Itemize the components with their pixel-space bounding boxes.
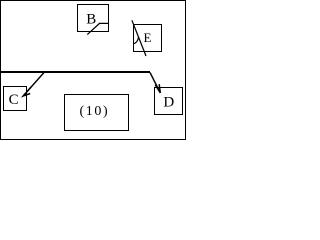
svg-text:(10): (10) (80, 104, 110, 119)
box C (4, 87, 27, 111)
horizontal line (1, 71, 150, 73)
slash mark on E (132, 20, 146, 56)
svg-text:D: D (163, 95, 174, 111)
box E (134, 25, 162, 52)
arrowhead at D (155, 84, 160, 93)
svg-text:E: E (144, 30, 152, 45)
arrow line to D (150, 73, 160, 93)
angle arc on E (133, 37, 139, 44)
svg-text:C: C (9, 92, 19, 108)
slash mark on B (87, 23, 108, 34)
arrowhead at C (23, 87, 31, 96)
arrow line to C (23, 73, 44, 97)
svg-text:B: B (86, 12, 96, 28)
box B (78, 5, 109, 32)
box D (155, 88, 183, 115)
frame border (1, 1, 186, 140)
box (10) (65, 95, 129, 131)
